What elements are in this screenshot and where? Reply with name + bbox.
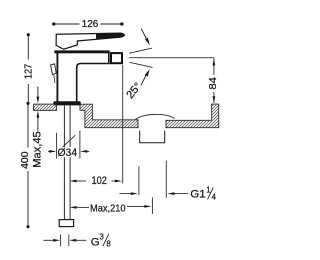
drain dome arc (135, 114, 174, 119)
dim 400 left (27, 105, 29, 227)
bowl floor right + back wall column (hatched) (166, 104, 219, 128)
svg-text:400: 400 (20, 151, 31, 169)
svg-text:84: 84 (208, 77, 219, 90)
dim 127 left (27, 35, 29, 104)
supply pipe (64, 105, 70, 219)
dim 102 (75, 65, 123, 184)
dim 126 top (54, 23, 122, 25)
body top cap thick band (54, 50, 109, 53)
faucet lever grip bar dark tip (96, 33, 125, 39)
drain tailpiece U bracket (140, 131, 165, 143)
base plate (53, 101, 81, 105)
deck left slab (hatched) (34, 104, 57, 110)
svg-text:Max,210: Max,210 (90, 203, 126, 214)
arrow from 25 deg text to lower jet line (141, 69, 150, 85)
dim G1 1/4 right (120, 161, 189, 198)
svg-text:Max,45: Max,45 (31, 131, 43, 168)
svg-text:8: 8 (106, 239, 111, 248)
pipe end nut (59, 220, 73, 227)
svg-text:Ø34: Ø34 (58, 147, 78, 159)
svg-text:4: 4 (212, 193, 217, 202)
spout underside and body right edge (77, 64, 110, 102)
dim Max.210 (75, 197, 152, 214)
water jet upper line (129, 48, 152, 53)
svg-text:126: 126 (82, 19, 99, 30)
svg-text:1: 1 (206, 185, 210, 194)
dim O34 (48, 131, 89, 159)
body left edge (56, 52, 58, 102)
aerator box (111, 53, 122, 63)
svg-text:127: 127 (23, 64, 34, 79)
svg-text:3: 3 (99, 233, 104, 242)
dim Max.45 arrows (37, 87, 39, 131)
arrow to upper jet line (141, 29, 150, 46)
dim 84 right (213, 58, 215, 103)
side knob on body (51, 64, 57, 83)
svg-text:102: 102 (92, 175, 107, 187)
dim G3/8 bottom (43, 235, 86, 247)
spout end face (108, 52, 110, 64)
deck right + step + bowl floor left (hatched) (80, 104, 138, 128)
water jet lower line (130, 62, 153, 67)
water jet horizontal line (129, 57, 214, 59)
svg-text:G1: G1 (190, 189, 205, 201)
faucet lever handle head (56, 33, 124, 49)
